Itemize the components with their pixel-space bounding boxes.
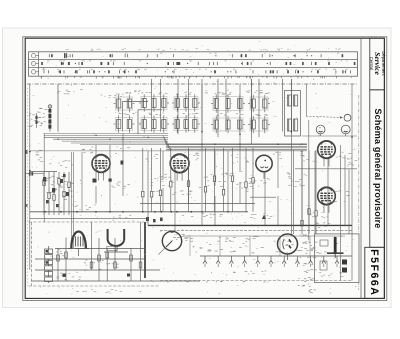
svg-text:Schéma général provisoire: Schéma général provisoire [373,108,383,228]
svg-text:F5F66A: F5F66A [368,249,380,296]
svg-text:Central: Central [369,57,374,71]
